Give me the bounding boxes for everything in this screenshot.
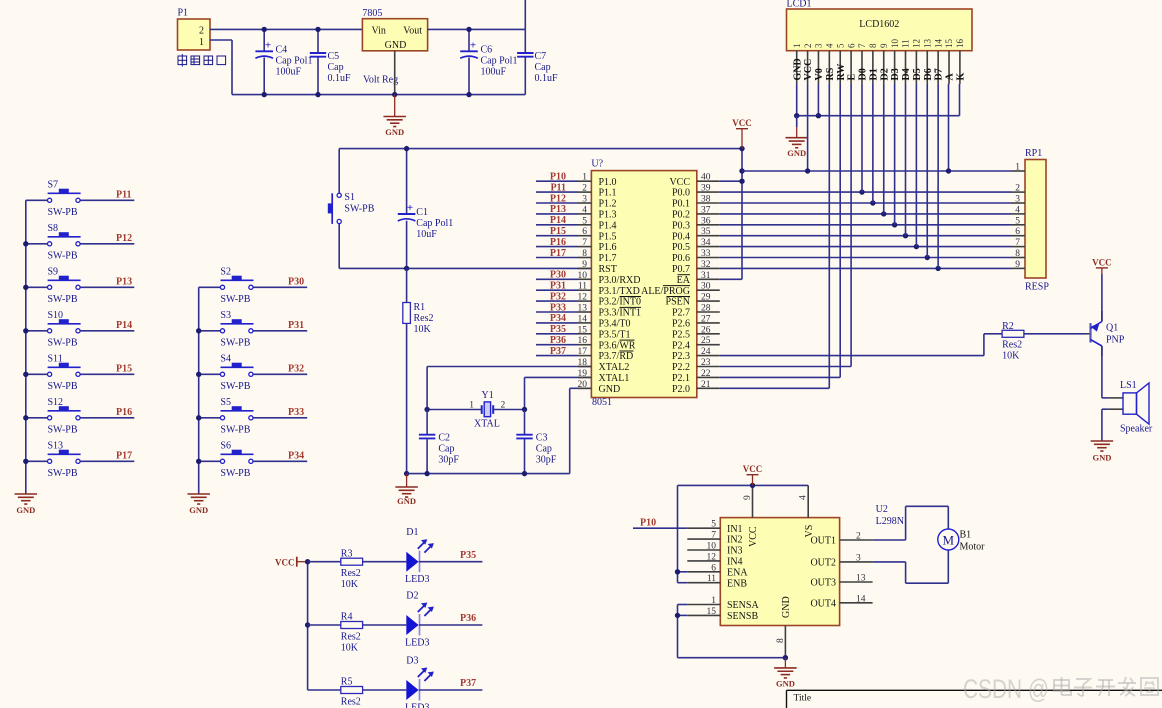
wire P0.2 to RP1 xyxy=(720,213,1011,215)
pin 15 P3.5/T1 xyxy=(578,325,631,340)
pin 9 U2 VCC xyxy=(743,485,759,547)
pin 7 U2 IN2 xyxy=(687,531,742,546)
capacitor C3 Cap 30pF xyxy=(516,410,557,474)
pin 22 P2.1 xyxy=(672,369,720,384)
svg-text:Speaker: Speaker xyxy=(1120,424,1153,435)
svg-text:D7: D7 xyxy=(934,68,945,80)
wire LCD VCC down xyxy=(807,84,809,171)
resistor R3 Res2 10K xyxy=(308,548,363,590)
svg-text:+: + xyxy=(470,40,476,52)
pin 20 GND xyxy=(578,380,621,395)
pin 5 RP1 xyxy=(1011,216,1025,226)
svg-text:14: 14 xyxy=(578,314,588,324)
svg-text:B1: B1 xyxy=(960,530,972,541)
svg-text:5: 5 xyxy=(1015,216,1020,226)
svg-text:D6: D6 xyxy=(923,68,934,80)
wire LCD GND/V0/K net xyxy=(797,84,960,116)
pin 27 P2.6 xyxy=(672,314,720,329)
svg-text:U?: U? xyxy=(591,159,603,170)
junction LED bus mid xyxy=(305,622,310,627)
junction LCD GND xyxy=(794,113,799,118)
junction LCD VCC xyxy=(805,168,810,173)
net label P33 xyxy=(536,302,578,313)
switch S4 SW-PB xyxy=(199,353,308,392)
net label P12 xyxy=(116,233,132,244)
switch S2 SW-PB xyxy=(199,266,308,305)
svg-text:SW-PB: SW-PB xyxy=(48,207,78,218)
junction ground rail / 7805 GND xyxy=(392,92,397,97)
junction P0.1 / LCD D1 xyxy=(870,200,875,205)
wire VCC vertical feed xyxy=(741,149,743,280)
wire RST net xyxy=(339,267,591,269)
svg-text:ENA: ENA xyxy=(727,567,748,578)
pin 17 P3.7/RD xyxy=(578,347,634,362)
net label P32 xyxy=(536,291,578,302)
svg-text:C4: C4 xyxy=(276,45,288,56)
pin 6 U2 ENA xyxy=(687,563,748,578)
svg-text:P1.5: P1.5 xyxy=(599,231,617,242)
junction crystal pin1 xyxy=(424,407,429,412)
svg-text:P0.4: P0.4 xyxy=(672,231,690,242)
wire EA to VCC xyxy=(720,278,742,280)
svg-text:23: 23 xyxy=(701,358,711,368)
watermark CSDN @电子开发圈 xyxy=(963,674,1158,704)
svg-text:Cap: Cap xyxy=(536,444,552,455)
svg-text:37: 37 xyxy=(701,205,711,215)
svg-text:2: 2 xyxy=(803,44,813,49)
svg-text:10K: 10K xyxy=(1002,351,1020,362)
svg-text:GND: GND xyxy=(787,148,806,158)
svg-text:GND: GND xyxy=(781,596,792,618)
svg-text:8: 8 xyxy=(1015,249,1020,259)
svg-text:R2: R2 xyxy=(1002,321,1014,332)
power port VCC mid xyxy=(732,118,752,148)
wire LCD D0 down xyxy=(861,84,863,192)
svg-text:1: 1 xyxy=(711,596,716,606)
pin 2 RP1 xyxy=(1011,184,1025,194)
pin 2 U2 OUT1 xyxy=(810,532,872,547)
svg-text:+: + xyxy=(407,202,413,214)
pin 31 EA xyxy=(677,271,720,286)
svg-text:P34: P34 xyxy=(288,451,304,462)
junction P0.0 / LCD D0 xyxy=(859,189,864,194)
junction C4 bottom xyxy=(262,92,267,97)
capacitor C7 Cap 0.1uF xyxy=(517,29,558,94)
pin 6 LCD E xyxy=(846,43,857,84)
pin 18 XTAL2 xyxy=(578,358,630,373)
junction C2 bottom xyxy=(424,471,429,476)
net label P10 motor xyxy=(633,517,687,528)
svg-text:P1.7: P1.7 xyxy=(599,253,617,264)
svg-text:3: 3 xyxy=(814,43,824,48)
net label P14 xyxy=(536,215,578,226)
svg-text:Res2: Res2 xyxy=(1002,340,1022,351)
svg-text:VCC: VCC xyxy=(1092,257,1112,267)
svg-text:SW-PB: SW-PB xyxy=(220,294,250,305)
svg-text:SW-PB: SW-PB xyxy=(344,204,374,215)
net label P35 xyxy=(460,550,476,561)
svg-text:P0.7: P0.7 xyxy=(672,264,690,275)
pin 36 P0.3 xyxy=(672,216,720,231)
pin 7 P1.6 xyxy=(578,238,617,253)
pin 33 P0.6 xyxy=(672,249,720,264)
svg-text:5: 5 xyxy=(835,43,845,48)
pin 35 P0.4 xyxy=(672,227,720,242)
svg-text:C7: C7 xyxy=(535,51,547,62)
wire P1 pin1 down to ground rail xyxy=(210,40,232,95)
wire OUT1 to motor xyxy=(873,506,949,540)
svg-text:1: 1 xyxy=(469,400,474,410)
svg-text:1: 1 xyxy=(792,44,802,49)
svg-text:6: 6 xyxy=(582,227,587,237)
svg-text:P0.1: P0.1 xyxy=(672,199,690,210)
svg-text:P0.3: P0.3 xyxy=(672,220,690,231)
power port VCC LEDs xyxy=(275,557,308,568)
svg-text:9: 9 xyxy=(743,495,753,500)
wire VCC top rail to reset circuit xyxy=(339,148,742,150)
pin 1 RP1 xyxy=(1011,162,1025,172)
svg-text:D2: D2 xyxy=(879,68,890,80)
pin 13 P3.3/INT1 xyxy=(578,304,642,319)
svg-text:14: 14 xyxy=(933,39,943,49)
svg-text:14: 14 xyxy=(856,594,866,604)
svg-text:21: 21 xyxy=(701,380,711,390)
svg-text:R5: R5 xyxy=(341,677,353,688)
diode D3 LED3 xyxy=(363,656,483,708)
net label P31 xyxy=(536,281,578,292)
pin 5 P1.4 xyxy=(578,216,617,231)
title block border xyxy=(787,690,1162,708)
svg-text:P10: P10 xyxy=(640,517,656,528)
svg-text:XTAL1: XTAL1 xyxy=(599,373,630,384)
svg-text:D1: D1 xyxy=(868,68,879,80)
svg-text:P1: P1 xyxy=(178,8,189,19)
net label P36 xyxy=(536,335,578,346)
svg-text:3: 3 xyxy=(856,553,861,563)
svg-text:Cap: Cap xyxy=(438,444,454,455)
net label P33 xyxy=(288,407,304,418)
svg-text:P32: P32 xyxy=(288,364,304,375)
svg-text:P3.5/T1: P3.5/T1 xyxy=(599,329,631,340)
svg-text:GND: GND xyxy=(776,678,795,688)
pin 3 RP1 xyxy=(1011,195,1025,205)
svg-text:38: 38 xyxy=(701,195,711,205)
motor B1 xyxy=(938,529,985,553)
svg-text:28: 28 xyxy=(701,304,711,314)
pin 5 LCD RW xyxy=(835,43,846,84)
svg-text:SW-PB: SW-PB xyxy=(220,337,250,348)
svg-text:P15: P15 xyxy=(116,364,132,375)
pin 30 ALE/PROG xyxy=(641,282,720,297)
resistor R1 Res2 10K xyxy=(403,268,434,473)
pin 15 U2 SENSB xyxy=(687,607,758,622)
net label P15 xyxy=(536,226,578,237)
wire P0.0 to RP1 xyxy=(720,191,1011,193)
junction SENSB xyxy=(675,613,680,618)
wire LCD D7 down xyxy=(937,84,939,269)
junction crystal pin2 xyxy=(522,407,527,412)
svg-text:8: 8 xyxy=(776,638,786,643)
net label P11 xyxy=(536,182,578,193)
svg-text:GND: GND xyxy=(16,505,35,515)
resistor R4 Res2 10K xyxy=(308,612,363,654)
svg-text:R3: R3 xyxy=(341,548,353,559)
pin 11 LCD D4 xyxy=(901,39,912,84)
svg-text:16: 16 xyxy=(955,39,965,49)
svg-text:P0.5: P0.5 xyxy=(672,242,690,253)
svg-text:22: 22 xyxy=(701,369,711,379)
svg-text:P30: P30 xyxy=(288,277,304,288)
pin 8 P1.7 xyxy=(578,249,617,264)
svg-text:25: 25 xyxy=(701,336,711,346)
svg-text:39: 39 xyxy=(701,184,711,194)
svg-text:S10: S10 xyxy=(48,310,64,321)
svg-text:4: 4 xyxy=(582,205,587,215)
svg-text:S13: S13 xyxy=(48,440,64,451)
svg-text:32: 32 xyxy=(701,260,711,270)
svg-text:1: 1 xyxy=(582,173,587,183)
svg-text:P3.2/INT0: P3.2/INT0 xyxy=(599,297,642,308)
svg-text:IN3: IN3 xyxy=(727,546,743,557)
svg-text:P2.2: P2.2 xyxy=(672,362,690,373)
svg-text:ALE/PROG: ALE/PROG xyxy=(641,286,690,297)
pin 12 P3.2/INT0 xyxy=(578,293,642,308)
switch S6 SW-PB xyxy=(199,440,308,479)
wire OUT2 to motor xyxy=(873,550,949,583)
wire bus column S7-S13 xyxy=(25,200,27,494)
svg-text:VCC: VCC xyxy=(669,177,690,188)
svg-text:P0.0: P0.0 xyxy=(672,188,690,199)
svg-text:E: E xyxy=(847,74,858,81)
junction C3 bottom xyxy=(522,471,527,476)
junction bus S9 xyxy=(23,285,28,290)
svg-text:Vout: Vout xyxy=(403,26,422,37)
svg-text:SW-PB: SW-PB xyxy=(48,381,78,392)
wire P0.3 to RP1 xyxy=(720,224,1011,226)
pin 9 RP1 xyxy=(1011,260,1025,270)
ground GND speaker xyxy=(1091,441,1114,463)
svg-text:Cap: Cap xyxy=(535,62,551,73)
svg-text:17: 17 xyxy=(578,347,588,357)
svg-text:S5: S5 xyxy=(220,397,231,408)
connector P1 power input xyxy=(178,8,211,51)
ground GND column1 xyxy=(15,494,38,515)
svg-text:4: 4 xyxy=(799,495,809,500)
svg-text:P33: P33 xyxy=(288,407,304,418)
svg-text:P0.2: P0.2 xyxy=(672,210,690,221)
wire U2 VCC VS rail xyxy=(678,484,809,486)
pin 3 LCD V0 xyxy=(814,43,825,84)
switch S11 SW-PB xyxy=(26,353,135,392)
svg-text:7: 7 xyxy=(1015,238,1020,248)
wire XTAL1 to crystal xyxy=(525,377,592,409)
resistor R2 Res2 10K xyxy=(1002,321,1024,362)
wire ENA ENB to VCC rail xyxy=(678,485,688,582)
net label P16 xyxy=(116,407,132,418)
label 电源接口 (power connector) xyxy=(178,54,226,67)
svg-text:P1.1: P1.1 xyxy=(599,188,617,199)
wire Q1 collector to speaker xyxy=(1102,346,1109,398)
pin 40 VCC xyxy=(669,173,719,188)
pin 3 P1.2 xyxy=(578,195,617,210)
svg-text:C1: C1 xyxy=(416,207,428,218)
junction R1 bottom / ground rail xyxy=(404,471,409,476)
svg-text:SW-PB: SW-PB xyxy=(220,468,250,479)
svg-text:P1.2: P1.2 xyxy=(599,199,617,210)
wire XTAL2 to crystal xyxy=(427,367,591,410)
svg-text:19: 19 xyxy=(578,369,588,379)
power port VCC Q1 xyxy=(1092,257,1112,274)
svg-text:P2.4: P2.4 xyxy=(672,340,690,351)
net label P35 xyxy=(536,324,578,335)
resistor R5 Res2 10K xyxy=(308,677,363,708)
svg-text:Volt Reg: Volt Reg xyxy=(363,75,398,86)
junction LCD A xyxy=(946,168,951,173)
svg-text:10K: 10K xyxy=(341,643,359,654)
pin 4 LCD RS xyxy=(825,43,836,84)
svg-text:6: 6 xyxy=(846,43,856,48)
wire LCD D3 down xyxy=(894,84,896,225)
resistor pack RP1 RESP xyxy=(1025,148,1049,293)
svg-text:18: 18 xyxy=(578,358,588,368)
pin 37 P0.2 xyxy=(672,205,720,220)
IC U? 8051 microcontroller xyxy=(591,159,696,409)
svg-text:33: 33 xyxy=(701,249,711,259)
svg-text:R1: R1 xyxy=(414,302,426,313)
svg-text:36: 36 xyxy=(701,216,711,226)
svg-text:SW-PB: SW-PB xyxy=(48,337,78,348)
svg-text:SW-PB: SW-PB xyxy=(48,468,78,479)
svg-text:7805: 7805 xyxy=(362,8,382,19)
svg-text:P12: P12 xyxy=(116,233,132,244)
svg-text:U2: U2 xyxy=(876,504,888,515)
svg-text:P31: P31 xyxy=(288,320,304,331)
svg-text:D2: D2 xyxy=(406,591,418,602)
crystal Y1 XTAL xyxy=(427,390,524,430)
svg-text:C5: C5 xyxy=(328,51,340,62)
wire VCC to RP1 pin1 xyxy=(742,170,1011,172)
wire P2.0 to LCD RS xyxy=(720,84,830,388)
junction P0.3 / LCD D3 xyxy=(892,222,897,227)
wire LCD A down xyxy=(948,84,950,171)
svg-text:7: 7 xyxy=(582,238,587,248)
svg-text:10: 10 xyxy=(578,271,588,281)
svg-text:P2.6: P2.6 xyxy=(672,319,690,330)
svg-text:SENSA: SENSA xyxy=(727,600,759,611)
svg-text:GND: GND xyxy=(189,505,208,515)
junction P0.5 / LCD D5 xyxy=(914,244,919,249)
svg-text:D1: D1 xyxy=(406,527,418,538)
wire LCD D6 down xyxy=(926,84,928,258)
svg-text:6: 6 xyxy=(711,563,716,573)
net label P30 xyxy=(288,277,304,288)
svg-text:10K: 10K xyxy=(414,324,432,335)
pin 11 P3.1/TXD xyxy=(578,282,640,297)
svg-text:RESP: RESP xyxy=(1025,282,1049,293)
svg-text:P36: P36 xyxy=(460,613,476,624)
net label P37 xyxy=(536,346,578,357)
net label P17 xyxy=(536,248,578,259)
svg-text:P3.3/INT1: P3.3/INT1 xyxy=(599,308,642,319)
pin 4 U2 VS xyxy=(799,485,815,537)
svg-text:P2.0: P2.0 xyxy=(672,384,690,395)
svg-text:30pF: 30pF xyxy=(536,455,557,466)
svg-text:VCC: VCC xyxy=(743,464,763,474)
svg-text:1: 1 xyxy=(199,37,204,48)
wire P0.1 to RP1 xyxy=(720,202,1011,204)
svg-text:31: 31 xyxy=(701,271,711,281)
svg-text:P3.0/RXD: P3.0/RXD xyxy=(599,275,641,286)
net label P17 xyxy=(116,451,132,462)
svg-text:Q1: Q1 xyxy=(1106,323,1118,334)
wire SENSA SENSB to GND xyxy=(678,605,786,658)
svg-text:8051: 8051 xyxy=(592,397,612,408)
junction RST / C1 xyxy=(404,266,409,271)
switch S9 SW-PB xyxy=(26,266,135,305)
svg-text:2: 2 xyxy=(856,532,861,542)
svg-text:M: M xyxy=(943,532,955,547)
svg-text:15: 15 xyxy=(578,325,588,335)
junction P0.2 / LCD D2 xyxy=(881,211,886,216)
svg-text:V0: V0 xyxy=(814,68,825,80)
svg-text:S9: S9 xyxy=(48,266,59,277)
net label P11 xyxy=(116,190,132,201)
svg-text:Res2: Res2 xyxy=(341,632,361,643)
svg-text:15: 15 xyxy=(944,39,954,49)
junction C6 top xyxy=(466,27,471,32)
svg-text:10K: 10K xyxy=(341,579,359,590)
junction bus S12 xyxy=(23,415,28,420)
wire VCC to Q1 emitter xyxy=(1101,274,1103,322)
ground GND below 7805 xyxy=(383,95,406,137)
junction VCC / RP1 line xyxy=(739,168,744,173)
svg-text:Res2: Res2 xyxy=(414,313,434,324)
pin 28 P2.7 xyxy=(672,304,720,319)
svg-text:SENSB: SENSB xyxy=(727,611,758,622)
svg-text:XTAL: XTAL xyxy=(474,418,500,429)
junction P0.6 / LCD D6 xyxy=(925,255,930,260)
svg-text:CSDN @: CSDN @ xyxy=(963,674,1049,704)
svg-text:P0.6: P0.6 xyxy=(672,253,690,264)
svg-text:D0: D0 xyxy=(858,68,869,80)
svg-text:P2.1: P2.1 xyxy=(672,373,690,384)
svg-text:GND: GND xyxy=(385,127,404,137)
svg-text:VCC: VCC xyxy=(732,118,752,128)
svg-text:29: 29 xyxy=(701,293,711,303)
svg-text:RST: RST xyxy=(599,264,617,275)
svg-text:C2: C2 xyxy=(438,433,450,444)
capacitor C5 Cap 0.1uF xyxy=(310,29,351,94)
capacitor C4 Cap Pol1 100uF xyxy=(255,29,312,94)
svg-text:35: 35 xyxy=(701,227,711,237)
svg-text:Motor: Motor xyxy=(960,542,986,553)
svg-text:K: K xyxy=(956,73,967,81)
svg-text:IN2: IN2 xyxy=(727,535,743,546)
svg-text:LCD1: LCD1 xyxy=(787,0,812,10)
svg-text:P1.6: P1.6 xyxy=(599,242,617,253)
wire P0.5 to RP1 xyxy=(720,246,1011,248)
svg-text:S6: S6 xyxy=(220,440,231,451)
svg-text:P14: P14 xyxy=(116,320,132,331)
svg-text:12: 12 xyxy=(578,293,588,303)
svg-text:P2.5: P2.5 xyxy=(672,329,690,340)
pin 14 P3.4/T0 xyxy=(578,314,631,329)
svg-text:7: 7 xyxy=(857,43,867,48)
svg-text:2: 2 xyxy=(582,184,587,194)
svg-text:EA: EA xyxy=(677,275,691,286)
svg-text:11: 11 xyxy=(578,282,587,292)
svg-text:LCD1602: LCD1602 xyxy=(859,19,899,30)
